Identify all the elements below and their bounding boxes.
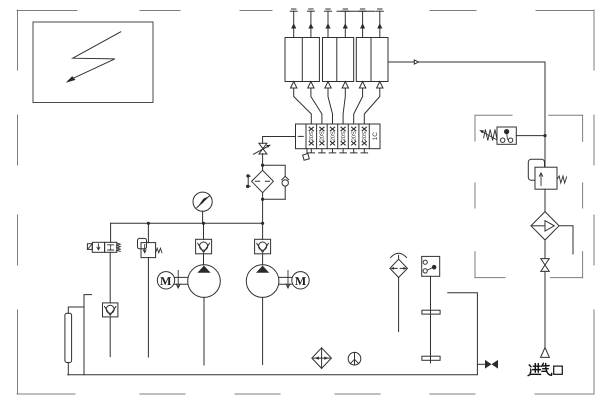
wire: header to CV2	[262, 223, 264, 239]
wire: gauge stub	[202, 211, 204, 223]
clogging indicator	[248, 176, 250, 186]
relief valve RV1	[141, 243, 156, 258]
wire: switch to main	[516, 135, 545, 137]
exhaust line 3	[325, 9, 332, 38]
wire: filter bypass	[263, 165, 286, 176]
level gauge lower mark	[422, 356, 440, 360]
distributor strip body	[296, 124, 381, 149]
level gauge upper mark	[422, 310, 440, 314]
node J3	[261, 222, 264, 225]
wire: hose 5	[354, 88, 363, 124]
node: filter inlet	[261, 164, 264, 167]
tank bottom line	[68, 293, 478, 375]
air filter F1	[252, 170, 274, 192]
drain valve DV	[485, 360, 492, 369]
port triangle 1	[291, 82, 297, 89]
valve bank block C	[356, 38, 388, 82]
wire: hose 6	[364, 88, 380, 124]
level switch LS	[422, 256, 440, 276]
wire: relief valve drain	[147, 258, 149, 357]
glyph 进	[528, 364, 541, 376]
lightning arrow	[69, 32, 121, 81]
node J1	[147, 222, 150, 225]
inner dashed frame bottom	[475, 277, 582, 279]
wire: CV1 to pump P1	[203, 254, 205, 265]
motor M1	[157, 272, 174, 289]
wire: accumulator bottom	[67, 363, 69, 375]
accumulator ACC	[65, 313, 72, 362]
wire: filter to pump header	[262, 193, 264, 224]
wire: solenoid valve to check box	[109, 252, 111, 303]
wire: pump P2 suction	[262, 297, 264, 364]
wire: filter drain	[559, 226, 573, 254]
port triangle 5	[359, 82, 365, 89]
wire: drain valve stub	[477, 363, 485, 365]
wire: shutoff to inlet	[544, 271, 546, 347]
exhaust line 5	[359, 9, 366, 38]
cooler CL	[312, 348, 332, 369]
wire: CV3 drain into tank	[109, 317, 111, 357]
regulator pilot loop	[528, 159, 544, 180]
wire: pump P1 suction	[203, 297, 205, 365]
check valve CV2	[255, 239, 271, 254]
svg-text:20S: 20S	[320, 131, 326, 141]
inner dashed frame (pneumatic section) top	[475, 114, 583, 116]
pressure gauge PG	[193, 192, 212, 211]
svg-text:1C: 1C	[372, 132, 379, 141]
wire: throttle to filter	[262, 154, 264, 171]
flow arrow on outlet	[414, 60, 418, 64]
regulator REG	[535, 167, 557, 189]
wire: air main down to regulator	[544, 136, 546, 168]
pressure switch PS	[497, 127, 516, 144]
svg-text:20S: 20S	[330, 131, 336, 141]
wire: bank outlet to air main	[388, 62, 545, 136]
exhaust line 1	[290, 9, 297, 38]
port triangle 6	[377, 82, 383, 89]
svg-text:M: M	[160, 274, 171, 288]
relief spring	[156, 248, 162, 253]
border bottom dashes	[17, 393, 594, 395]
strip drip square	[306, 149, 308, 154]
solenoid valve SV1	[92, 242, 104, 252]
valve bank block B	[323, 38, 354, 82]
exhaust line 6	[376, 9, 383, 38]
exhaust header wire	[337, 10, 375, 12]
relief valve RV1 pilot	[138, 238, 147, 248]
pump P2	[246, 265, 279, 298]
wire: hose 1	[294, 88, 312, 124]
level gauge pipe	[430, 276, 432, 363]
wire: hose 4	[343, 88, 345, 124]
glyph 口	[554, 366, 563, 374]
wire: regulator to filter	[544, 189, 546, 211]
wire: strip to throttle	[263, 137, 296, 144]
border right dashes	[593, 10, 595, 394]
exhaust line 4	[342, 9, 349, 38]
suction pipe	[84, 295, 92, 375]
motor labels	[160, 274, 306, 288]
port triangle 4	[342, 82, 348, 89]
node: pressure switch tap	[543, 134, 546, 137]
strip drain marks	[308, 149, 368, 153]
motor M2	[292, 272, 309, 289]
wire: bypass return	[263, 198, 286, 200]
svg-text:20S: 20S	[352, 131, 358, 141]
strip X marks and labels	[309, 127, 366, 145]
wire: header to relief valve	[147, 223, 149, 242]
check valve CV1	[196, 239, 212, 254]
label 进气口	[528, 363, 562, 375]
strip cell 0 dash	[298, 135, 303, 137]
coupling M1-P1	[175, 277, 188, 284]
wire: pump header	[111, 222, 263, 224]
wire: header to solenoid valve	[110, 223, 112, 242]
valve spring	[117, 243, 121, 251]
border left dashes	[17, 10, 19, 394]
check valve bypass	[282, 176, 289, 180]
coupling P2-M2	[279, 277, 292, 284]
thermometer TH	[348, 352, 361, 365]
breather BR	[391, 253, 407, 257]
wire: breather pipe	[398, 278, 400, 332]
inner dashed frame right	[582, 115, 584, 277]
node J2	[202, 222, 205, 225]
regulator spring	[557, 176, 567, 183]
glyph 气	[542, 363, 552, 375]
border top dashes	[17, 10, 594, 12]
valve bank block A	[285, 38, 319, 82]
shutoff valve SH	[541, 259, 549, 272]
air inlet triangle	[541, 348, 550, 358]
wire: filter to shutoff	[544, 240, 546, 258]
wire: hose 3	[328, 88, 333, 124]
electric power box	[33, 22, 153, 103]
solenoid coil	[87, 244, 92, 250]
pressure switch spring	[484, 130, 497, 141]
throttle valve	[259, 143, 267, 154]
air filter F2	[531, 212, 559, 240]
wire: CV2 to pump P2	[262, 254, 264, 265]
svg-text:20S: 20S	[362, 131, 368, 141]
node: filter outlet	[261, 198, 264, 201]
wire: accumulator top	[68, 307, 84, 313]
wire: hose 2	[311, 88, 322, 124]
port triangle 3	[325, 82, 331, 89]
wire: header to CV1	[203, 223, 205, 239]
check valve CV3	[103, 303, 118, 317]
inner dashed frame left	[474, 115, 476, 277]
svg-text:20S: 20S	[309, 131, 315, 141]
svg-text:20S: 20S	[341, 131, 347, 141]
pump P1	[188, 265, 221, 298]
exhaust line 2	[307, 9, 314, 38]
svg-text:M: M	[295, 274, 306, 288]
port triangle 2	[308, 82, 314, 89]
